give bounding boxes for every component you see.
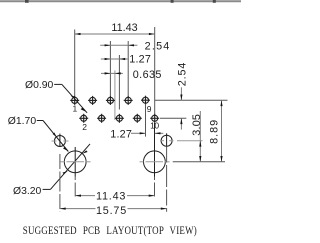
wire: right hole column extension down (154, 177, 156, 199)
svg-text:2: 2 (82, 122, 87, 132)
mounting hole left Ø3.20 (61, 147, 91, 177)
label leader Ø3.20 (13, 144, 90, 197)
small hole left Ø1.70 (52, 134, 69, 147)
dimension 2.54 vertical right (177, 62, 189, 130)
svg-text:1.27: 1.27 (129, 54, 151, 66)
small hole right (160, 133, 174, 146)
mounting hole right Ø3.20 (140, 123, 170, 177)
svg-text:Ø3.20: Ø3.20 (13, 186, 42, 197)
border tick 1 (25, 0, 29, 3)
pad pin8 (133, 114, 142, 123)
pad pin7 (124, 96, 133, 105)
dimension 11.43 top (75, 22, 155, 35)
pad pin2 (79, 114, 88, 123)
dimension 15.75 bottom (60, 205, 167, 217)
wire: center line (gray) (114, 70, 116, 120)
border tick 3 (213, 0, 216, 3)
wire: extension line pin1 column (74, 30, 76, 97)
dimension 0.635 top (101, 69, 162, 81)
dimension 11.43 bottom (75, 191, 154, 203)
wire: left hole column extension down (74, 177, 76, 199)
label leader Ø1.70 (8, 116, 69, 151)
wire: right small hole column extension down (166, 147, 168, 212)
pad pin6 (115, 114, 124, 123)
svg-text:Ø1.70: Ø1.70 (8, 116, 37, 127)
border top line (0, 0, 241, 2)
svg-text:11.43: 11.43 (96, 191, 126, 203)
dimension 3.05 right (191, 111, 203, 162)
svg-text:0.635: 0.635 (133, 69, 162, 81)
svg-text:2.54: 2.54 (145, 40, 171, 52)
pad pin5 (106, 96, 115, 105)
dimension 8.89 right (209, 100, 223, 162)
label leader Ø0.90 (25, 80, 87, 113)
svg-text:11.43: 11.43 (111, 22, 137, 34)
wire: extension line pin5 column (109, 41, 111, 97)
pad pin1 (70, 96, 79, 105)
pad pin10 (150, 114, 159, 123)
dimension 1.27 top (101, 54, 151, 66)
svg-text:Ø0.90: Ø0.90 (25, 80, 54, 91)
svg-text:8.89: 8.89 (209, 119, 221, 144)
svg-text:2.54: 2.54 (177, 62, 189, 87)
svg-text:3.05: 3.05 (191, 114, 203, 136)
pad pin3 (88, 96, 97, 105)
wire: pin10 row extension right (160, 117, 186, 119)
wire: pin9 row extension right (155, 99, 228, 101)
svg-text:SUGGESTED PCB LAYOUT(TOP VIEW): SUGGESTED PCB LAYOUT(TOP VIEW) (23, 225, 197, 237)
wire: extension line pin6 column (118, 55, 120, 110)
svg-text:15.75: 15.75 (96, 205, 127, 217)
svg-text:9: 9 (147, 104, 152, 114)
wire: extension line pin7 column (127, 41, 129, 97)
wire: extension line pin10 column (long, down through right hole) (154, 27, 156, 114)
svg-text:1: 1 (73, 104, 78, 114)
wire: pin9 column bottom extension (145, 105, 147, 137)
border tick 2 (171, 0, 174, 3)
wire: left small hole column extension down (59, 154, 61, 212)
dimension 1.27 bottom (110, 129, 163, 141)
svg-text:1.27: 1.27 (110, 129, 132, 141)
pad pin4 (97, 114, 106, 123)
wire: hole row extension right (173, 161, 225, 163)
dimension 2.54 top (100, 40, 170, 52)
wire: small-circle row extension right (gray) (177, 140, 203, 142)
pad pin9 (141, 96, 150, 105)
